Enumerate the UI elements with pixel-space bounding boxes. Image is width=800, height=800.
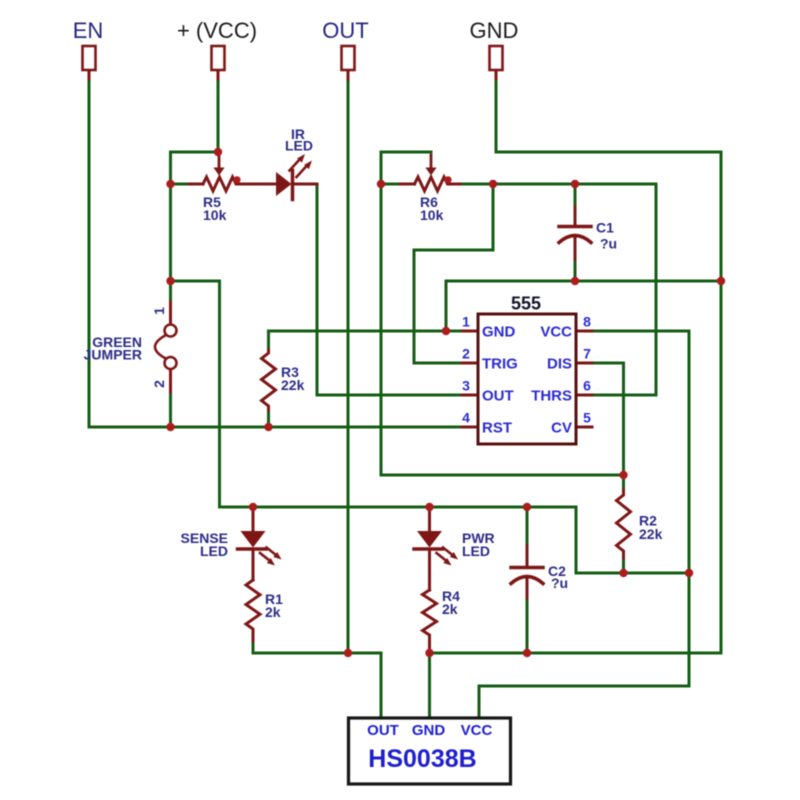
svg-text:10k: 10k [203,207,227,223]
svg-text:8: 8 [583,314,591,330]
svg-text:10k: 10k [420,207,444,223]
svg-text:22k: 22k [639,526,663,542]
svg-text:555: 555 [511,294,541,314]
svg-text:7: 7 [583,346,591,362]
svg-text:?u: ?u [600,236,617,252]
svg-text:+ (VCC): + (VCC) [177,18,257,43]
svg-text:LED: LED [462,543,490,559]
svg-text:TRIG: TRIG [482,356,518,373]
svg-text:2: 2 [462,346,470,362]
svg-text:HS0038B: HS0038B [368,745,476,773]
svg-text:VCC: VCC [540,324,572,341]
svg-text:DIS: DIS [547,356,572,373]
svg-text:6: 6 [583,378,591,394]
svg-text:GND: GND [482,324,516,341]
svg-text:JUMPER: JUMPER [84,347,142,363]
svg-text:?u: ?u [551,575,568,591]
svg-text:LED: LED [200,543,228,559]
svg-text:1: 1 [462,314,470,330]
svg-text:1: 1 [151,307,167,315]
svg-text:22k: 22k [281,377,305,393]
svg-text:GND: GND [470,18,519,43]
svg-text:CV: CV [551,420,572,437]
svg-text:5: 5 [583,410,591,426]
svg-text:VCC: VCC [461,722,493,739]
svg-text:RST: RST [482,420,512,437]
svg-text:THRS: THRS [531,388,572,405]
svg-text:3: 3 [462,378,470,394]
svg-text:LED: LED [285,138,313,154]
svg-text:2k: 2k [442,601,458,617]
svg-text:OUT: OUT [322,18,368,43]
svg-text:GND: GND [412,722,446,739]
svg-text:OUT: OUT [367,722,399,739]
svg-text:EN: EN [73,18,104,43]
svg-text:4: 4 [462,410,470,426]
svg-text:2k: 2k [265,604,281,620]
svg-text:C1: C1 [596,220,614,236]
svg-text:OUT: OUT [482,388,514,405]
svg-text:2: 2 [151,380,167,388]
